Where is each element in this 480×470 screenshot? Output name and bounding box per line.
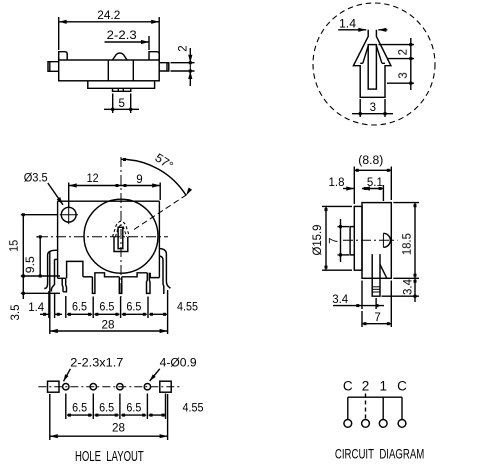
hole layout dim 6.5 line b [95, 414, 119, 416]
front view rotor circle [84, 199, 158, 273]
hole layout circle 4 [144, 384, 150, 390]
circuit terminal circle C1 [344, 420, 352, 428]
detail dim 3 bottom extension lines [359, 99, 361, 117]
side view pin chamfer [380, 265, 387, 279]
svg-text:28: 28 [112, 423, 125, 435]
front view pin 1 [61, 278, 64, 292]
dim (8.8) line [354, 169, 391, 171]
front view bottom right step [150, 273, 159, 278]
hole layout dim 6.5 extension lines [65, 394, 67, 420]
detail dim 2 and 3 extension lines [379, 44, 415, 46]
svg-text:7: 7 [374, 312, 380, 324]
side view body [362, 203, 391, 279]
front view bottom face mid-right [122, 273, 148, 277]
front view horizontal centerline [38, 236, 168, 238]
dim 1.4 extension lines (front) [48, 291, 50, 318]
svg-text:3.5: 3.5 [10, 305, 22, 321]
hole layout circle 1 [63, 384, 69, 390]
dim 1.4 line (front) [40, 313, 49, 315]
dim 24.2 extension lines [58, 17, 60, 50]
dim 5 line [104, 108, 139, 110]
top view left partition line [107, 60, 109, 81]
svg-text:(8.8): (8.8) [358, 155, 383, 167]
circuit bus wire [348, 396, 402, 398]
dim 7 left extension lines [338, 226, 350, 228]
dim phi15.9 line [325, 206, 327, 270]
dim 5.1 line [362, 188, 383, 190]
detail rotor inner slot rectangle [368, 45, 376, 90]
hole layout dim 6.5 line c [121, 414, 146, 416]
front view body outline [58, 200, 160, 202]
front view shelf right of pin2 [95, 273, 119, 277]
detail inner arrow left wing [363, 46, 368, 64]
svg-text:6.5: 6.5 [126, 302, 141, 314]
svg-text:24.2: 24.2 [97, 10, 120, 22]
svg-text:2: 2 [178, 45, 190, 51]
side view shaft hub [350, 227, 354, 255]
hole layout dim 28 extension lines [49, 394, 51, 440]
dim 3.4 bottom line [333, 305, 384, 307]
hole layout dim 28 line [50, 435, 168, 437]
svg-text:6.5: 6.5 [126, 402, 141, 414]
dim 6.5 line c (front) [122, 313, 147, 315]
dim 9 line [121, 185, 160, 187]
svg-text:12: 12 [87, 173, 99, 185]
dim 12 and 9 extension lines [68, 183, 70, 208]
circuit terminal circle C2 [398, 420, 406, 428]
front view left step [55, 258, 58, 260]
label 4-phi0.9 leader [150, 369, 160, 381]
svg-text:2-2.3x1.7: 2-2.3x1.7 [70, 358, 123, 370]
front view bottom face left-middle [83, 276, 93, 278]
svg-text:1.4: 1.4 [28, 302, 45, 314]
dim 15 extension line [21, 214, 58, 216]
dim 7 bottom line [362, 323, 391, 325]
dim 6.5 extension lines (front) [65, 296, 67, 318]
front view pin 2 [92, 277, 95, 294]
label 2-2.3x1.7 leader [64, 369, 71, 382]
top view right partition line [132, 60, 134, 81]
svg-text:2: 2 [362, 378, 370, 393]
front bottom face extension line [21, 275, 60, 277]
dim 5.1 extension line [382, 185, 384, 201]
svg-text:9.5: 9.5 [25, 256, 37, 273]
circuit wire terminal 2 dashed [365, 394, 367, 420]
svg-text:6.5: 6.5 [72, 302, 87, 314]
dim (8.8) extension lines [353, 167, 355, 205]
top view left side pin [48, 62, 59, 72]
circuit terminal circle 1 [379, 420, 387, 428]
detail view dashed circle [313, 3, 435, 125]
dim 3.4 right line [414, 278, 416, 302]
dim 15 line [22, 215, 24, 276]
detail dim 3 bottom line [352, 113, 393, 115]
detail dim 1.4 line [338, 29, 366, 31]
dim 57 degree arc [121, 159, 186, 195]
dim 28 extension line left (front) [49, 252, 51, 334]
front view hole crosshair [60, 214, 78, 216]
dim 4.55 extension line (front) [167, 290, 169, 334]
svg-text:3: 3 [370, 102, 376, 114]
side view pin [372, 254, 380, 296]
svg-text:2-2.3: 2-2.3 [107, 30, 137, 42]
hole layout dim 4.55 line [149, 414, 166, 416]
circuit wire terminal C2 [401, 397, 403, 419]
side view horizontal centerline [343, 239, 398, 241]
dim 3.4 bottom extension lines [361, 281, 363, 310]
top view center dome [113, 53, 128, 60]
side view pin crimp marks [372, 286, 380, 288]
circuit wire terminal C1 [347, 397, 349, 419]
dim 9.5 line [39, 237, 41, 276]
front view shaft lower bracket [114, 237, 128, 252]
top view left lug [59, 52, 67, 60]
svg-text:Ø3.5: Ø3.5 [24, 173, 48, 185]
svg-text:4-Ø0.9: 4-Ø0.9 [160, 358, 197, 370]
dim 2 line [189, 48, 191, 63]
dim 18.5 line [414, 203, 416, 279]
svg-text:1: 1 [379, 378, 387, 393]
svg-text:2: 2 [398, 49, 410, 55]
front view shaft slot dashed dome [113, 221, 130, 236]
hole layout circle 2 [90, 384, 96, 390]
top view right lug [149, 52, 159, 60]
dim phi3.5 leader [48, 183, 63, 205]
front view shaft slot rectangle [118, 227, 123, 248]
svg-text:C: C [343, 378, 353, 393]
hole layout dim 6.5 line a [67, 414, 92, 416]
front view mounting hole [61, 207, 76, 222]
dim 6.5 line b (front) [94, 313, 119, 315]
dim phi15.9 extension lines [322, 205, 352, 207]
svg-text:C: C [397, 378, 407, 393]
svg-text:1.4: 1.4 [339, 19, 357, 31]
svg-text:6.5: 6.5 [99, 402, 114, 414]
svg-text:3.4: 3.4 [403, 278, 415, 295]
front view pin 3 [119, 277, 122, 294]
dim 9.5 extension centerline [37, 236, 39, 238]
hole layout centerline [38, 386, 180, 388]
svg-text:6.5: 6.5 [72, 402, 87, 414]
svg-text:15: 15 [9, 240, 21, 252]
circuit terminal circle 2 [362, 420, 370, 428]
side view rotor disc [354, 206, 362, 270]
front view vertical centerline [120, 157, 122, 297]
svg-text:4.55: 4.55 [183, 402, 204, 414]
hole layout circle 3 [117, 384, 123, 390]
circuit wire terminal 1 [382, 397, 384, 419]
dim 57 degree dashed radius [134, 195, 187, 230]
hole layout left square hole [48, 381, 60, 392]
hole layout dim 4.55 extension line [165, 394, 167, 420]
dim 12 line [69, 185, 121, 187]
top view bottom tab [113, 88, 131, 91]
svg-text:CIRCUIT DIAGRAM: CIRCUIT DIAGRAM [335, 445, 424, 461]
dim 7 bottom extension lines [361, 311, 363, 327]
svg-text:5.1: 5.1 [367, 177, 383, 189]
dim 3.5 line [22, 276, 24, 299]
front view right edge [158, 201, 160, 277]
dim 2-2.3 line [105, 41, 150, 43]
svg-text:HOLE LAYOUT: HOLE LAYOUT [75, 449, 144, 465]
front view bottom block [67, 261, 83, 278]
top view bottom flange [88, 81, 155, 89]
dim 24.2 line [59, 21, 160, 23]
dim 5 extension lines [112, 94, 114, 114]
dim 6.5 line a (front) [67, 313, 92, 315]
svg-text:18.5: 18.5 [402, 233, 414, 255]
dim 1.8 line [343, 188, 354, 190]
dim 28 line (front) [50, 330, 168, 332]
svg-text:3: 3 [398, 72, 410, 78]
dim 4.55 line (front) [149, 313, 167, 315]
front pin tip extension line [21, 292, 60, 294]
dim 18.5 extension lines [393, 202, 419, 204]
dim 7 left line [340, 219, 342, 262]
dim 2 extension lines (top view right pin) [171, 62, 195, 64]
detail inner arrow right wing [376, 46, 382, 64]
svg-text:4.55: 4.55 [177, 302, 198, 314]
top view body [59, 60, 160, 81]
svg-text:7: 7 [328, 238, 340, 244]
svg-text:1.8: 1.8 [329, 177, 345, 189]
svg-text:9: 9 [136, 174, 142, 186]
dim 3.4 right extension line [382, 295, 420, 297]
front view right clip [159, 249, 170, 289]
detail rotor slot outer arrow outline [353, 30, 391, 98]
detail dim 2-3 line [410, 38, 412, 90]
svg-text:Ø15.9: Ø15.9 [312, 225, 324, 256]
svg-text:28: 28 [102, 320, 115, 332]
svg-text:5: 5 [118, 98, 124, 110]
svg-text:6.5: 6.5 [99, 302, 114, 314]
top view right side pin [159, 63, 169, 71]
front view pin 4 [147, 273, 151, 294]
svg-text:3.4: 3.4 [332, 294, 349, 306]
front view left clip [44, 250, 57, 288]
side view shaft end semicircle [383, 233, 390, 247]
hole layout right square hole [160, 381, 171, 392]
